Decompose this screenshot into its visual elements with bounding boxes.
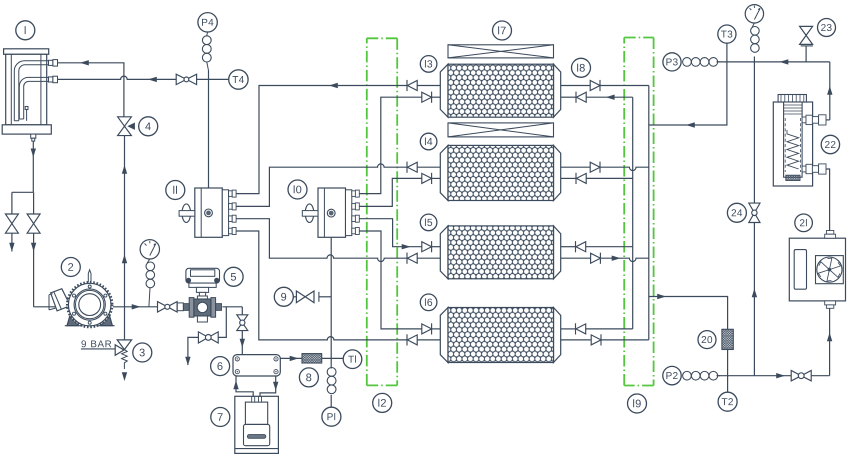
- label 2: [61, 258, 80, 277]
- label 14: [420, 133, 437, 150]
- wire left vent outlet: [11, 233, 13, 251]
- valve 24 (ball valve vertical): [749, 203, 760, 213]
- flow arrow vessel13 upper feed: [329, 83, 338, 88]
- wire vessel15 lower right to outer collector: [561, 257, 591, 259]
- wire manifold 10 center drop to T1 junction: [330, 217, 332, 358]
- wire flowmeter top fitting: [826, 119, 830, 121]
- globe valve before cooler riser: [791, 371, 801, 381]
- flow arrow vessel15 upper feed: [402, 244, 411, 249]
- flow arrow P2 header: [776, 373, 785, 378]
- label 17: [493, 21, 512, 40]
- flow arrow vessel13 lower right: [606, 95, 615, 100]
- label 13: [420, 56, 437, 73]
- label 6: [211, 357, 230, 376]
- wire manifold10 port2 riser to vessel14 lower: [359, 178, 422, 206]
- flow arrow pump discharge: [132, 304, 141, 309]
- wire vessel16 upper right to inner collector: [561, 328, 576, 330]
- pump 2 (blower motor): [49, 270, 115, 327]
- label 8: [299, 368, 318, 387]
- flow arrow collector to filter20: [657, 294, 666, 299]
- filter 20 (hatched): [722, 329, 733, 349]
- instrument circle P4 with pigtail: [198, 13, 217, 32]
- check valve vessel15 lower left: [407, 253, 417, 263]
- label 20: [698, 331, 716, 349]
- wire vessel16 upper valve to vessel: [432, 328, 441, 330]
- ball valve to box 6: [237, 315, 248, 323]
- relief valve 3 with spring: [115, 340, 131, 369]
- flow arrow flowmeter riser: [827, 86, 832, 95]
- wire T2 stub: [727, 376, 729, 393]
- flow arrow box7 to box6: [233, 381, 238, 390]
- label 19: [628, 394, 647, 413]
- pump discharge ball valve: [158, 302, 168, 312]
- flow arrow vessel15 lower right: [612, 256, 621, 261]
- check valve vessel14 lower right: [576, 173, 586, 183]
- wire vessel15 lower valve to vessel: [417, 257, 440, 259]
- heater 17 upper (crossed box): [448, 45, 554, 58]
- wire valve 9 branch: [292, 296, 296, 298]
- flow arrow up to valve4 upper: [122, 255, 127, 264]
- check valve vessel13 lower right: [576, 92, 586, 102]
- wire outer collector: [648, 86, 650, 340]
- flow arrow right vent: [31, 243, 36, 252]
- wire pump discharge to valve: [113, 306, 158, 308]
- wire filter 8 to T1: [322, 357, 344, 359]
- regeneration zone boundary 19 (green dash-dot): [624, 38, 653, 386]
- flow arrow cooler riser: [827, 333, 832, 342]
- wire vessel13 upper right to outer collector: [561, 85, 591, 87]
- vent valve right: [27, 214, 40, 224]
- wire vessel16 lower valve to vessel: [417, 339, 440, 341]
- wire manifold11 port2 riser to vessel14 upper: [236, 164, 407, 207]
- flow arrow into box6 from valve: [240, 339, 245, 348]
- label 16: [420, 294, 437, 311]
- wire valve to box 6 inlet: [241, 331, 243, 355]
- wire flowmeter riser top: [829, 62, 831, 120]
- T4 line ball valve: [176, 74, 186, 84]
- wire vessel1 bottom drop: [32, 141, 34, 192]
- flow arrow box6 to box7: [273, 382, 278, 391]
- wire vessel13 upper valve to vessel: [417, 85, 440, 87]
- wire vessel1 lower line to valve T4 line: [58, 76, 177, 79]
- manifold 10 center port dot: [327, 209, 335, 217]
- box 7 (vacuum pump unit): [235, 396, 279, 453]
- instrument circle P1: [322, 407, 341, 426]
- wire vent header left: [12, 191, 33, 193]
- manifold valve 10 (4-port selector): [302, 188, 359, 237]
- manifold 11 center port dot: [205, 209, 213, 217]
- check valve vessel16 upper right: [576, 324, 586, 334]
- label 21: [795, 214, 813, 232]
- wire valve 24 line: [753, 62, 755, 376]
- wire vessel14 lower right to inner collector: [561, 177, 576, 179]
- wire vessel16 lower right to outer collector: [561, 339, 591, 341]
- flow arrow up to valve4 lower: [122, 165, 127, 174]
- wire P4 riser to manifold 11 center: [208, 71, 210, 210]
- drain ball valve under control valve: [198, 332, 208, 343]
- wire gauge coil drop: [753, 57, 755, 62]
- valve 4 (hand valve): [118, 117, 132, 126]
- label 22: [821, 135, 839, 153]
- label 23: [818, 19, 836, 37]
- label 18: [572, 58, 591, 77]
- flow arrow drain to vent: [185, 357, 190, 366]
- wire box6-box7 left leg: [236, 376, 253, 396]
- flow arrow left vent: [9, 243, 14, 252]
- adsorber vessel 13: [440, 64, 560, 117]
- vent valve left: [5, 214, 18, 224]
- wire inner collector: [632, 97, 634, 329]
- gauge pigtail coil: [146, 262, 155, 271]
- label 12: [373, 393, 392, 412]
- check valve vessel16 upper left: [422, 324, 432, 334]
- wire valve4 down leg to relief valve 3: [124, 136, 126, 340]
- P4 pigtail coil: [202, 36, 211, 45]
- manifold valve 11 (4-port selector): [179, 188, 236, 237]
- flow arrow vessel1 bottom: [31, 149, 36, 158]
- wire manifold11 port4 drop to vessel16 lower: [236, 231, 407, 340]
- adsorber vessel 15: [440, 226, 560, 279]
- check valve vessel15 upper right: [576, 242, 586, 252]
- label 10: [288, 180, 307, 199]
- adsorber vessel 16: [440, 308, 560, 363]
- instrument circle T4: [229, 70, 248, 89]
- wire corner down to valve above box 6: [241, 307, 243, 315]
- P1 pigtail coil: [327, 368, 336, 377]
- instrument circle T1: [343, 350, 362, 369]
- wire T1 junction coil to P1: [330, 358, 332, 368]
- box 6 (membrane dryer): [233, 355, 280, 376]
- instrument circle T3: [718, 25, 736, 43]
- wire vessel15 upper valve to vessel: [432, 246, 441, 248]
- check valve vessel14 lower left: [422, 173, 432, 183]
- wire vessel14 upper right to outer collector: [561, 166, 591, 168]
- pressure gauge top right: [745, 5, 763, 23]
- wire flowmeter bottom to cooler 21: [826, 169, 830, 231]
- wire manifold10 port1 riser to vessel13 lower: [359, 97, 422, 193]
- check valve vessel13 lower left: [422, 92, 432, 102]
- flow arrow T3 header: [686, 122, 695, 127]
- wire vessel13 lower right to inner collector: [561, 96, 576, 98]
- control valve 5 with actuator: [177, 268, 221, 322]
- wire drain valve right leg to tee: [218, 307, 226, 338]
- wire box 6 to filter 8: [280, 357, 302, 359]
- wire manifold11 port1 to vessel13 upper: [236, 86, 407, 194]
- vessel 1 (humidifier column): [2, 49, 57, 141]
- wire filter 20 to P2 T2 line: [727, 350, 729, 376]
- wire pump valve to control valve 5: [176, 306, 177, 308]
- label 11: [166, 181, 185, 200]
- wire globe valve to cooler riser: [811, 375, 829, 377]
- check valve vessel15 upper left: [422, 242, 432, 252]
- instrument circle P3 with coil: [663, 53, 681, 71]
- label 9: [274, 287, 293, 306]
- pressure gauge at pump: [140, 240, 159, 259]
- instrument circle T2: [718, 392, 737, 411]
- check valve vessel13 upper right: [590, 81, 600, 91]
- valve 23 (vent valve): [800, 26, 813, 46]
- wire box6-box7 right leg: [260, 376, 276, 396]
- label 5: [224, 267, 243, 286]
- check valve vessel14 upper left: [407, 162, 417, 172]
- label 3 and 9 BAR setpoint: [133, 343, 152, 362]
- wire cooler 21 bottom drop: [829, 308, 831, 375]
- wire vessel14 upper valve to vessel: [417, 166, 440, 168]
- wire control valve 5 outlet to corner: [223, 306, 243, 308]
- check valve vessel16 lower right: [591, 335, 601, 345]
- wire T4 valve to T4 circle: [197, 78, 230, 80]
- wire P3 header line: [717, 61, 830, 63]
- gauge pigtail top right: [751, 27, 760, 36]
- wire manifold10 port4 drop to vessel16 upper: [359, 231, 422, 329]
- flow arrow P3 header: [780, 59, 789, 64]
- wire right vent drop: [33, 192, 35, 214]
- label 4: [139, 117, 158, 136]
- wire T3 drop to outer collector: [649, 43, 727, 125]
- label 15: [420, 214, 437, 231]
- wire valve 23 stub: [805, 46, 807, 62]
- label 24: [727, 203, 746, 222]
- wire vessel1 upper line to corner: [58, 63, 124, 117]
- flow arrow on T4 line: [148, 77, 157, 82]
- wire manifold11 port3 drop to vessel15 lower: [236, 219, 407, 262]
- flow arrow valve24 riser: [752, 289, 757, 298]
- adsorber vessel 14: [440, 145, 560, 200]
- wire vessel15 upper right to inner collector: [561, 246, 576, 248]
- wire P2 T2 header: [717, 375, 792, 377]
- flow arrow into vessel1 upper: [80, 60, 89, 65]
- wire pump suction horizontal: [34, 306, 67, 308]
- flow arrow box6 to filter8: [290, 356, 299, 361]
- label 7: [211, 408, 230, 427]
- wire drain valve left leg: [188, 337, 199, 365]
- P3 coil: [683, 58, 692, 67]
- regeneration zone boundary 12 (green dash-dot): [367, 38, 397, 385]
- wire left vent drop: [11, 192, 13, 214]
- check valve vessel16 lower left: [407, 335, 417, 345]
- heater lower (crossed box): [448, 123, 554, 137]
- wire vessel14 lower valve to vessel: [432, 177, 441, 179]
- flow meter 22 (rotameter): [773, 95, 826, 187]
- wire pump suction drop: [33, 233, 35, 307]
- cooler 21 (fan heat exchanger): [789, 231, 845, 309]
- check valve vessel15 lower right: [591, 253, 601, 263]
- P2 coil: [683, 371, 692, 380]
- wire outer collector to filter 20: [649, 297, 728, 330]
- valve 9 (globe valve with stem): [296, 291, 319, 303]
- instrument circle P2 with coil: [663, 366, 681, 384]
- flow arrow relief valve outlet: [122, 372, 127, 381]
- wire vessel13 lower valve to vessel: [432, 96, 441, 98]
- check valve vessel13 upper left: [407, 81, 417, 91]
- label 1: [16, 21, 35, 40]
- check valve vessel14 upper right: [590, 162, 600, 172]
- wire manifold10 port3 drop to vessel15 upper: [359, 219, 422, 247]
